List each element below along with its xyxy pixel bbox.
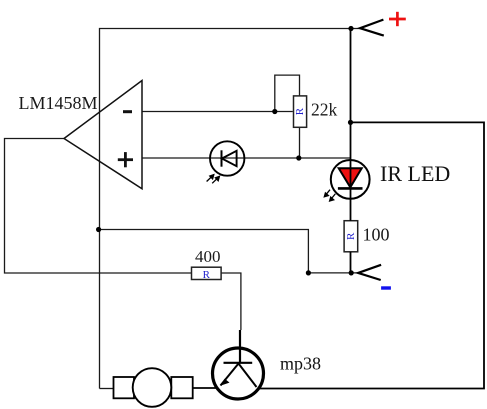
svg-text:R: R xyxy=(345,232,357,240)
svg-text:LM1458M: LM1458M xyxy=(19,93,98,113)
svg-text:22k: 22k xyxy=(311,100,338,120)
svg-text:R: R xyxy=(203,269,211,281)
svg-text:IR LED: IR LED xyxy=(380,161,450,186)
svg-text:400: 400 xyxy=(195,247,221,266)
svg-text:R: R xyxy=(294,107,306,115)
svg-text:mp38: mp38 xyxy=(280,354,321,374)
svg-text:100: 100 xyxy=(363,225,390,245)
